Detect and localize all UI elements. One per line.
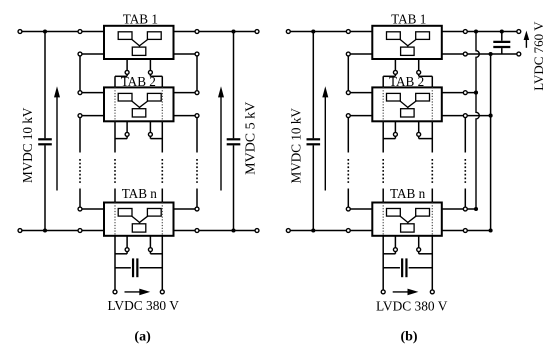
converter module TAB 2 (a)	[104, 87, 174, 121]
wire TAB1 bottom-right stub (b)	[418, 59, 420, 76]
dotted continuation left chain (b)	[347, 159, 349, 184]
wire TAB1 bottom-left stub (a)	[126, 59, 128, 76]
wire MVDC 5 kV bus upper segment (a)	[233, 32, 235, 139]
wire LVDC (b) right bus	[431, 236, 433, 292]
converter module TAB 1 (b)	[372, 26, 442, 59]
wire MVDC 10 kV bus upper segment (a)	[44, 32, 46, 139]
terminal node TABn (a) bottom-right	[148, 248, 152, 252]
wire right column above TABn (b)	[464, 189, 466, 210]
LVDC bus pass-through (dotted) inside TAB n (b) left	[382, 203, 384, 236]
wire left series link below TAB2 (a)	[79, 116, 81, 153]
LVDC bus pass-through (dotted) inside TAB 2 (a) left	[114, 87, 116, 121]
wire LVDC right bus upper drop (b)	[431, 76, 433, 87]
wire right series link below TAB2 (a)	[196, 116, 198, 153]
capacitor C MVDC 5 kV (a)	[227, 139, 241, 144]
capacitor C MVDC 10 kV (b)	[307, 139, 321, 144]
terminal node MVDC10- (b)	[286, 229, 290, 233]
terminal node MVDC5+ (a)	[255, 30, 259, 34]
wire LVDC bracket left (b)	[383, 75, 395, 77]
arrow LVDC (b) output current	[393, 289, 419, 296]
capacitor LVDC 760 V (b)	[493, 42, 510, 47]
terminal node TABn upper-right (b)	[463, 207, 467, 211]
svg-text:TAB 1: TAB 1	[123, 12, 158, 27]
dotted continuation LVDC right bus (b)	[431, 159, 433, 184]
svg-text:TAB 2: TAB 2	[389, 74, 424, 89]
wire LVDC right bus above TABn (b)	[431, 189, 433, 203]
wire left series link TAB1-TAB2 (a)	[79, 54, 81, 93]
terminal node TAB1 upper-left (a)	[78, 30, 82, 34]
terminal node TAB2 bottom-left (b)	[393, 132, 397, 136]
terminal node LVDC760+ (b)	[517, 30, 521, 34]
arrow LVDC 760 V voltage (b)	[524, 31, 530, 48]
wire TABn (b) bottom-left stub	[394, 236, 396, 254]
arrow MVDC 10 kV voltage (a)	[54, 86, 60, 190]
junction capacitor 760 top (b)	[500, 29, 504, 33]
junction bottom-left (b)	[311, 228, 315, 232]
svg-text:TAB 1: TAB 1	[391, 12, 426, 27]
terminal node MVDC10+ (a)	[18, 30, 22, 34]
converter module TAB 2 (b)	[372, 87, 442, 121]
wire (a) L-joint left	[115, 253, 127, 255]
wire LVDC left bus mid segment (b)	[382, 121, 384, 152]
terminal node TAB1 lower-left (b)	[346, 52, 350, 56]
terminal node LVDC (a) right	[160, 290, 164, 294]
wire TABn upper port rail (a)	[80, 208, 197, 210]
wire TAB2 L-joint left (b)	[383, 138, 395, 140]
junction bus B TAB2 (b)	[489, 114, 493, 118]
wire right series link above TABn (a)	[196, 189, 198, 210]
terminal node TAB1 upper-right (b)	[463, 30, 467, 34]
LVDC bus pass-through (dotted) inside TAB n (b) right	[431, 203, 433, 236]
terminal node TAB2 upper-left (b)	[346, 91, 350, 95]
terminal node TAB2 lower-right (a)	[195, 114, 199, 118]
wire MVDC 10 kV bus upper segment (b)	[312, 32, 314, 139]
wire LVDC (b) left bus	[382, 236, 384, 292]
wire left series link TAB1-TAB2 (b)	[347, 54, 349, 93]
wire right column below TAB2 (b)	[464, 116, 466, 153]
wire left series link above TABn (b)	[347, 189, 349, 210]
terminal node TAB1 upper-right (a)	[195, 30, 199, 34]
wire LVDC right bus above TABn (a)	[161, 189, 163, 203]
dotted continuation left chain (a)	[79, 159, 81, 184]
terminal node LVDC760- (b)	[517, 52, 521, 56]
converter module TAB n (a)	[104, 203, 174, 236]
wire TABn upper port rail (b)	[348, 208, 476, 210]
wire right series link TAB1-TAB2 (a)	[196, 54, 198, 93]
terminal node TABn upper-left (b)	[346, 207, 350, 211]
capacitor LVDC 380 V (a)	[133, 258, 137, 277]
terminal node TABn (b) bottom-left	[393, 248, 397, 252]
terminal node TAB1 upper-left (b)	[346, 30, 350, 34]
wire LVDC right bus mid segment (a)	[161, 121, 163, 152]
wire LVDC left bus mid segment (a)	[114, 121, 116, 152]
wire LVDC left bus above TABn (a)	[114, 189, 116, 203]
svg-text:(b): (b)	[400, 329, 417, 344]
svg-text:LVDC 380 V: LVDC 380 V	[107, 298, 179, 313]
wire LVDC bracket left (a)	[115, 75, 127, 77]
junction top-left (b)	[311, 29, 315, 33]
wire left series link above TABn (a)	[79, 189, 81, 210]
wire LVDC right bus mid segment (b)	[431, 121, 433, 152]
figure (b) bottom bus	[288, 230, 490, 232]
wire MVDC 10 kV bus lower segment (b)	[312, 145, 314, 230]
svg-text:MVDC 10 kV: MVDC 10 kV	[20, 107, 35, 183]
svg-text:LVDC 760 V: LVDC 760 V	[531, 21, 546, 91]
terminal node TAB1 bottom-left (a)	[125, 70, 129, 74]
terminal node TAB2 upper-right (a)	[195, 91, 199, 95]
terminal node LVDC (a) left	[113, 290, 117, 294]
wire LVDC left bus upper drop (b)	[382, 76, 384, 87]
terminal node TAB2 lower-left (b)	[346, 114, 350, 118]
terminal node TABn upper-left (a)	[78, 207, 82, 211]
dotted continuation LVDC left bus (b)	[382, 159, 384, 184]
wire TAB1 bottom-right stub (a)	[149, 59, 151, 76]
junction bottom-left (a)	[43, 228, 47, 232]
terminal node TAB2 bottom-right (b)	[417, 132, 421, 136]
arrow LVDC (a) output current	[125, 289, 151, 296]
terminal node TABn lower-left (a)	[78, 229, 82, 233]
svg-text:LVDC 380 V: LVDC 380 V	[376, 298, 448, 313]
wire LVDC left bus upper drop (a)	[114, 76, 116, 87]
junction bus B TAB1 (b)	[489, 52, 493, 56]
wire LVDC (a) right bus	[161, 236, 163, 292]
figure (a) top MVDC bus	[20, 31, 257, 33]
terminal node TAB1 lower-left (a)	[78, 52, 82, 56]
wire (a) L-joint right	[150, 253, 162, 255]
dotted continuation LVDC left bus (a)	[114, 159, 116, 184]
wire TAB2 bottom-left stub (b)	[394, 121, 396, 138]
svg-text:MVDC 5 kV: MVDC 5 kV	[243, 102, 258, 175]
wire LVDC 760 V capacitor bottom lead (b)	[501, 48, 503, 54]
junction bottom-right (a)	[231, 228, 235, 232]
terminal node TAB1 bottom-right (a)	[148, 70, 152, 74]
wire LVDC (a) capacitor lead right	[140, 267, 163, 269]
junction bus A TAB2 (b)	[474, 91, 478, 95]
wire bus B (b)	[490, 54, 492, 231]
terminal node MVDC10- (a)	[18, 229, 22, 233]
wire TAB1 lower port rail (a)	[80, 53, 197, 55]
terminal node TAB1 lower-right (a)	[195, 52, 199, 56]
wire TAB2 upper port rail (b)	[348, 92, 476, 94]
capacitor C MVDC 10 kV (a)	[38, 139, 52, 144]
terminal node MVDC10+ (b)	[286, 30, 290, 34]
wire LVDC (a) capacitor lead left	[115, 267, 131, 269]
wire LVDC (a) left bus	[114, 236, 116, 292]
arrow MVDC 10 kV voltage (b)	[322, 86, 328, 190]
wire TAB2 lower port rail (a)	[80, 115, 197, 117]
terminal node MVDC5- (a)	[255, 229, 259, 233]
terminal node TABn upper-right (a)	[195, 207, 199, 211]
wire TAB1 bottom-left stub (b)	[394, 59, 396, 76]
wire left series link below TAB2 (b)	[347, 116, 349, 153]
junction bus B bottom (b)	[489, 228, 493, 232]
wire TAB2 bottom-left stub (a)	[126, 121, 128, 138]
wire LVDC (b) capacitor lead left	[383, 267, 400, 269]
dotted continuation right chain (a)	[196, 159, 198, 184]
LVDC bus pass-through (dotted) inside TAB 2 (b) right	[431, 87, 433, 121]
figure (b) top bus	[288, 31, 519, 33]
wire TABn (a) bottom-right stub	[149, 236, 151, 254]
junction bus A TABn (b)	[474, 207, 478, 211]
terminal node TABn (b) bottom-right	[417, 248, 421, 252]
terminal node TAB1 bottom-left (b)	[393, 70, 397, 74]
wire TAB2 bottom-right stub (b)	[418, 121, 420, 138]
terminal node TAB2 lower-left (a)	[78, 114, 82, 118]
terminal node TAB2 upper-left (a)	[78, 91, 82, 95]
svg-text:MVDC 10 kV: MVDC 10 kV	[289, 108, 304, 184]
wire LVDC right bus upper drop (a)	[161, 76, 163, 87]
junction top-left (a)	[43, 29, 47, 33]
wire LVDC bracket right (a)	[150, 75, 162, 77]
LVDC bus pass-through (dotted) inside TAB 2 (a) right	[161, 87, 163, 121]
terminal node TAB2 lower-right (b)	[463, 114, 467, 118]
wire LVDC (b) capacitor lead right	[409, 267, 433, 269]
LVDC bus pass-through (dotted) inside TAB 2 (b) left	[382, 87, 384, 121]
wire TAB2 L-joint right (a)	[150, 138, 162, 140]
svg-text:TAB n: TAB n	[390, 186, 426, 201]
wire TAB2 L-joint right (b)	[419, 138, 433, 140]
wire TAB2 lower port rail (b)	[348, 115, 490, 117]
terminal node TAB1 bottom-right (b)	[417, 70, 421, 74]
LVDC bus pass-through (dotted) inside TAB n (a) right	[161, 203, 163, 236]
wire bus A upper (b)	[476, 32, 479, 210]
terminal node TABn lower-left (b)	[346, 229, 350, 233]
terminal node TAB1 lower-right (b)	[463, 52, 467, 56]
wire (b) L-joint left	[383, 253, 395, 255]
dotted continuation LVDC right bus (a)	[161, 159, 163, 184]
svg-text:TAB n: TAB n	[122, 186, 158, 201]
wire TAB2 bottom-right stub (a)	[149, 121, 151, 138]
junction bus A top (b)	[474, 29, 478, 33]
terminal node TAB2 upper-right (b)	[463, 91, 467, 95]
terminal node TAB2 bottom-right (a)	[148, 132, 152, 136]
terminal node TAB2 bottom-left (a)	[125, 132, 129, 136]
terminal node TABn (a) bottom-left	[125, 248, 129, 252]
terminal node TABn lower-right (b)	[463, 229, 467, 233]
wire (b) L-joint right	[419, 253, 433, 255]
wire MVDC 10 kV bus lower segment (a)	[44, 145, 46, 230]
wire TAB1 lower port rail (b)	[348, 53, 519, 55]
terminal node LVDC (b) right	[430, 290, 434, 294]
wire TABn (b) bottom-right stub	[418, 236, 420, 254]
wire LVDC left bus above TABn (b)	[382, 189, 384, 203]
wire TAB2 L-joint left (a)	[115, 138, 127, 140]
arrow MVDC 5 kV voltage (a)	[218, 86, 224, 190]
wire MVDC 5 kV bus lower segment (a)	[233, 145, 235, 230]
wire LVDC bracket right (b)	[419, 75, 433, 77]
terminal node LVDC (b) left	[381, 290, 385, 294]
converter module TAB n (b)	[372, 203, 442, 236]
converter module TAB 1 (a)	[104, 26, 174, 59]
LVDC bus pass-through (dotted) inside TAB n (a) left	[114, 203, 116, 236]
wire TABn (a) bottom-left stub	[126, 236, 128, 254]
dotted continuation right column (b)	[464, 159, 466, 184]
svg-text:TAB 2: TAB 2	[121, 74, 156, 89]
wire TAB2 upper port rail (a)	[80, 92, 197, 94]
figure (a) bottom MVDC bus	[20, 230, 257, 232]
junction top-right (a)	[231, 29, 235, 33]
svg-text:(a): (a)	[134, 329, 151, 344]
wire LVDC 760 V capacitor top lead (b)	[501, 32, 503, 41]
terminal node TABn lower-right (a)	[195, 229, 199, 233]
capacitor LVDC 380 V (b)	[402, 258, 406, 277]
